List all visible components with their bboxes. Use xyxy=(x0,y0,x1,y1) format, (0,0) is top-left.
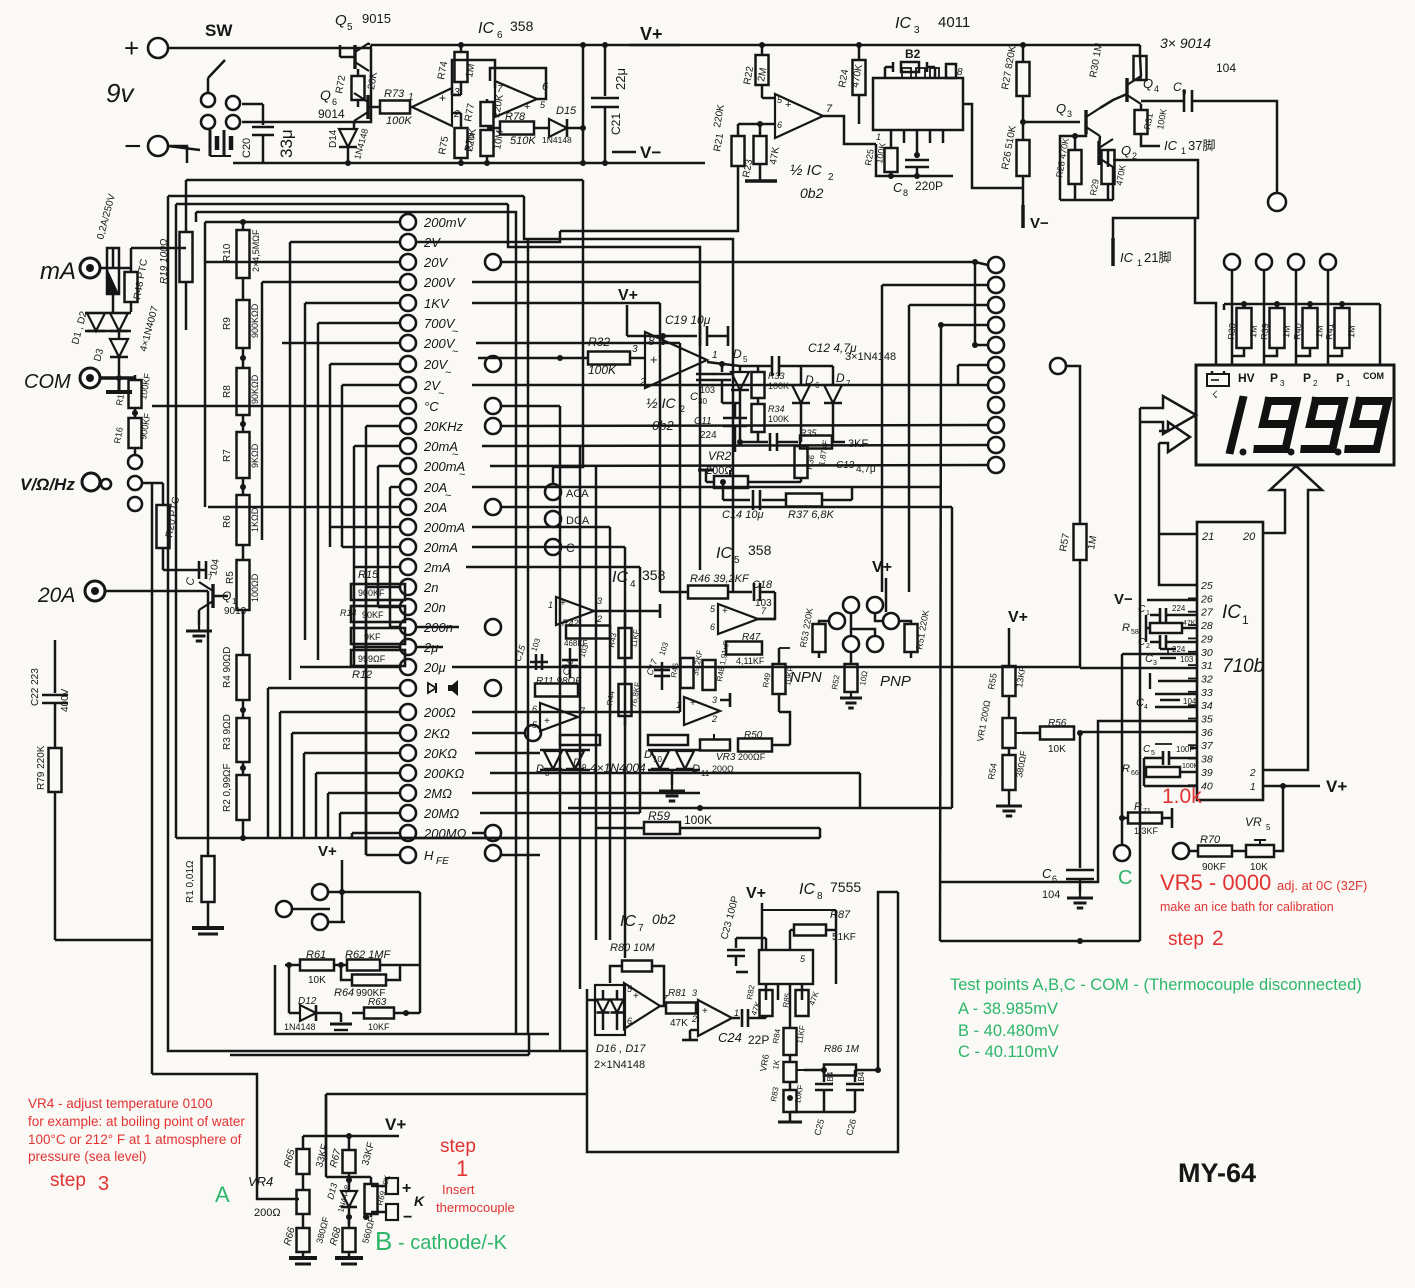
svg-text:C: C xyxy=(1138,604,1146,615)
wire C6 junction xyxy=(940,940,1140,943)
svg-text:V+: V+ xyxy=(872,559,892,576)
svg-text:+: + xyxy=(560,598,566,609)
svg-text:C24: C24 xyxy=(718,1030,742,1045)
pin32 stub xyxy=(1158,680,1197,683)
resistor R2 0.99ohmF xyxy=(237,775,250,820)
wire thermo lines xyxy=(560,1050,587,1053)
wire pin1 V+ xyxy=(1263,785,1320,788)
wire + to rail xyxy=(168,47,371,50)
resistor R57 1M xyxy=(1074,524,1087,560)
svg-text:100K: 100K xyxy=(768,381,789,391)
svg-text:VR5 - 0000: VR5 - 0000 xyxy=(1160,870,1271,895)
wire IC6b feedback xyxy=(490,68,546,99)
svg-text:IC: IC xyxy=(620,913,636,930)
svg-text:103: 103 xyxy=(700,385,715,395)
svg-text:10K: 10K xyxy=(308,975,326,986)
svg-text:5: 5 xyxy=(734,555,740,566)
svg-text:C: C xyxy=(690,391,698,403)
svg-text:1,3KF: 1,3KF xyxy=(1134,826,1159,836)
wire range rows left xyxy=(205,221,400,224)
svg-text:1B4: 1B4 xyxy=(857,1071,866,1086)
svg-text:~: ~ xyxy=(445,367,451,379)
svg-text:R33: R33 xyxy=(768,371,785,381)
svg-text:3: 3 xyxy=(1280,379,1285,388)
op-amp IC7b xyxy=(698,1000,732,1036)
resistor R30 1M xyxy=(1139,45,1142,56)
resistor R82 47K xyxy=(760,990,773,1016)
capacitor C14 10u xyxy=(723,499,750,502)
svg-text:R56: R56 xyxy=(1048,718,1067,729)
op-amp IC7a xyxy=(624,983,660,1029)
svg-text:200KΩ: 200KΩ xyxy=(423,766,464,781)
resistor R35 3KF xyxy=(800,436,832,449)
wire IC6a out to IC6b xyxy=(452,60,495,95)
resistor R55 13KF xyxy=(1003,666,1016,696)
svg-text:20MΩ: 20MΩ xyxy=(423,806,459,821)
svg-text:3: 3 xyxy=(1153,660,1157,667)
switch contact 200mA xyxy=(400,519,416,535)
svg-text:R32: R32 xyxy=(588,335,610,349)
resistor R25 100K xyxy=(890,143,893,148)
ground R83 xyxy=(778,1121,802,1124)
svg-text:22P: 22P xyxy=(748,1033,769,1047)
svg-text:1M: 1M xyxy=(1346,325,1357,338)
svg-text:adj. at 0C (32F): adj. at 0C (32F) xyxy=(1277,878,1367,893)
resistor R6 1KohmD xyxy=(237,495,250,545)
arrow display bottom up xyxy=(1263,466,1322,770)
resistor R71 1.3KF xyxy=(1119,815,1125,821)
svg-text:104: 104 xyxy=(1042,889,1060,901)
svg-text:3: 3 xyxy=(712,695,717,705)
svg-text:C: C xyxy=(1118,867,1132,889)
svg-text:100ΩD: 100ΩD xyxy=(250,573,260,602)
resistor R38 1M xyxy=(1231,270,1234,365)
svg-text:200mV: 200mV xyxy=(423,215,467,230)
transistor Q3 xyxy=(1084,110,1087,134)
potentiometer VR6 1K xyxy=(784,1062,797,1082)
switch contact 2V xyxy=(400,234,416,250)
svg-text:R11 98ΩF: R11 98ΩF xyxy=(536,676,582,687)
svg-text:VR3: VR3 xyxy=(716,752,736,763)
svg-text:Q: Q xyxy=(320,87,331,103)
svg-text:C22 223: C22 223 xyxy=(30,668,41,706)
resistor R64 990KF xyxy=(352,975,386,986)
svg-text:V+: V+ xyxy=(746,885,766,902)
svg-text:R78: R78 xyxy=(505,111,526,123)
svg-text:R41: R41 xyxy=(1324,323,1335,340)
svg-text:220P: 220P xyxy=(915,179,943,193)
svg-text:34: 34 xyxy=(1201,700,1213,712)
svg-text:5: 5 xyxy=(347,22,353,33)
svg-text:33μ: 33μ xyxy=(277,129,296,158)
resistor R13 9KF xyxy=(351,628,405,644)
svg-text:7: 7 xyxy=(638,923,644,934)
resistor R5 100ohmD xyxy=(237,560,250,610)
resistor R53 220K xyxy=(819,621,829,624)
wire long right lines xyxy=(819,828,822,838)
wire IC2b out xyxy=(707,362,740,366)
svg-text:R12: R12 xyxy=(352,669,372,681)
svg-text:35: 35 xyxy=(1201,714,1213,726)
V- pin26 xyxy=(1147,599,1197,602)
svg-text:V−: V− xyxy=(1114,591,1133,608)
wire 2V row to R21 xyxy=(416,231,560,242)
resistor R23 47K xyxy=(759,124,762,136)
switch contacts middle scattered xyxy=(485,254,501,270)
svg-text:R40: R40 xyxy=(1292,323,1303,340)
svg-text:2: 2 xyxy=(1146,643,1150,650)
wire Q4 collector xyxy=(1140,56,1141,76)
svg-text:200ΩF: 200ΩF xyxy=(738,752,766,762)
ground R1 xyxy=(207,902,210,926)
svg-text:8: 8 xyxy=(648,334,655,348)
wire IC2a pin6 xyxy=(738,123,775,126)
transistor Q2 xyxy=(1097,141,1100,165)
terminal sockets hfe area xyxy=(312,884,328,900)
svg-text:R39: R39 xyxy=(1259,323,1270,340)
svg-text:2: 2 xyxy=(596,614,602,624)
wire C1 C2 left join xyxy=(1145,615,1148,642)
svg-text:~: ~ xyxy=(459,469,465,481)
svg-text:3: 3 xyxy=(692,988,697,998)
svg-text:2: 2 xyxy=(1313,379,1318,388)
svg-text:+: + xyxy=(650,352,658,367)
svg-text:COM: COM xyxy=(1363,371,1384,381)
svg-text:R9: R9 xyxy=(222,317,233,330)
wire thermo bottom xyxy=(302,1224,305,1228)
svg-text:Q: Q xyxy=(1056,101,1066,116)
svg-text:Test points A,B,C - COM - (T: Test points A,B,C - COM - (Thermocouple … xyxy=(950,976,1362,994)
svg-text:C21: C21 xyxy=(609,113,623,135)
svg-text:3: 3 xyxy=(98,1173,109,1195)
op-amp IC2b xyxy=(645,332,707,388)
IC3 pins bottom xyxy=(890,130,893,143)
resistor R8 90KohmD xyxy=(237,368,250,415)
svg-text:+: + xyxy=(439,91,446,105)
wire matrix verticals xyxy=(204,222,207,507)
svg-text:200Ω: 200Ω xyxy=(423,705,456,720)
ground IC7b xyxy=(690,1029,698,1032)
svg-text:400V: 400V xyxy=(60,688,71,712)
svg-text:−: − xyxy=(124,130,142,163)
capacitor C26 184 xyxy=(854,1070,857,1082)
svg-text:7: 7 xyxy=(846,379,851,388)
svg-text:33: 33 xyxy=(1201,687,1213,699)
svg-text:+: + xyxy=(690,698,696,709)
svg-text:27: 27 xyxy=(1200,607,1214,619)
potentiometer VR3 200ohm xyxy=(700,740,730,751)
svg-text:9: 9 xyxy=(1182,88,1187,97)
wire vertical to V- xyxy=(582,45,585,163)
svg-text:37: 37 xyxy=(1201,740,1214,752)
resistor R66 380ohmF xyxy=(297,1228,310,1252)
switch contact 20MΩ xyxy=(400,805,416,821)
svg-text:C19 10μ: C19 10μ xyxy=(665,313,711,327)
resistor R48b 1.91KF xyxy=(703,660,716,690)
svg-text:step: step xyxy=(1168,929,1204,950)
svg-text:R70: R70 xyxy=(1200,834,1221,846)
svg-text:P: P xyxy=(1303,371,1311,385)
svg-text:3: 3 xyxy=(914,25,920,36)
svg-text:4,11KF: 4,11KF xyxy=(736,656,765,666)
svg-text:47K: 47K xyxy=(1183,620,1196,627)
wire R86 right xyxy=(856,892,898,1070)
resistor R48 PTC xyxy=(130,268,133,272)
svg-text:3: 3 xyxy=(597,596,602,606)
wire second column connections xyxy=(975,262,988,265)
svg-text:2: 2 xyxy=(691,1014,697,1024)
svg-text:2n: 2n xyxy=(423,580,438,595)
svg-text:+: + xyxy=(402,1180,411,1197)
svg-text:5: 5 xyxy=(1151,750,1155,757)
resistor R63 10KF xyxy=(364,1008,394,1019)
svg-text:358: 358 xyxy=(642,567,666,583)
wire bus left verticals xyxy=(168,196,560,1051)
svg-text:6: 6 xyxy=(532,704,537,714)
svg-text:1: 1 xyxy=(1242,613,1249,627)
svg-text:VR4 - adjust temperature 0100: VR4 - adjust temperature 0100 xyxy=(28,1096,213,1111)
resistor R45 39.2KF xyxy=(681,658,694,688)
wire Q2 bottom net xyxy=(1074,184,1077,200)
resistor R16 900KF xyxy=(134,408,137,418)
svg-text:104: 104 xyxy=(1183,697,1197,706)
ground R52 xyxy=(850,692,852,698)
svg-text:6: 6 xyxy=(777,120,782,130)
svg-text:R50: R50 xyxy=(744,730,763,741)
resistor R17 100KF xyxy=(134,375,137,380)
svg-text:V−: V− xyxy=(640,143,661,162)
arrow second stem xyxy=(1159,443,1197,534)
svg-text:1: 1 xyxy=(1250,782,1256,793)
svg-text:½ IC: ½ IC xyxy=(646,395,676,411)
svg-text:4,7μ: 4,7μ xyxy=(856,464,876,475)
svg-text:10K: 10K xyxy=(1048,744,1066,755)
resistor R3 9ohmD xyxy=(237,718,250,762)
wire rows right long xyxy=(502,261,975,264)
svg-text:358: 358 xyxy=(510,18,534,34)
switch contact 200mA~ xyxy=(400,458,416,474)
svg-text:100K: 100K xyxy=(386,115,412,127)
resistor R36 1.87KF xyxy=(795,446,808,478)
svg-text:1B4: 1B4 xyxy=(826,1071,835,1086)
battery cell symbol xyxy=(209,130,212,156)
svg-text:30: 30 xyxy=(698,397,707,406)
op-amp IC2a xyxy=(775,94,823,138)
resistor R34 100K xyxy=(752,404,765,432)
resistor R14 90KF xyxy=(351,606,405,622)
svg-text:Q: Q xyxy=(335,12,347,29)
svg-text:V+: V+ xyxy=(618,287,638,304)
svg-text:6: 6 xyxy=(710,622,715,632)
arrow display left xyxy=(1140,396,1196,434)
resistor R67 33KF xyxy=(348,1136,351,1150)
capacitor C10 C11 xyxy=(721,364,724,372)
resistor R49 10KF xyxy=(773,664,786,694)
capacitor C7 104 xyxy=(163,569,206,572)
svg-text:2: 2 xyxy=(711,714,717,724)
diode D15 1N4148 xyxy=(534,127,548,130)
resistor R42 468KF xyxy=(566,626,610,639)
transistor Q4 xyxy=(1125,78,1128,102)
wire bottom collector xyxy=(243,837,520,840)
svg-text:H: H xyxy=(424,848,434,863)
capacitor C20 33u xyxy=(262,104,265,125)
svg-text:1: 1 xyxy=(734,1008,739,1018)
wire pin35 xyxy=(940,721,1197,882)
wire IC2a out xyxy=(823,116,876,144)
svg-text:V+: V+ xyxy=(1008,609,1028,626)
svg-text:C: C xyxy=(1173,80,1182,94)
svg-text:32: 32 xyxy=(1201,673,1213,685)
svg-text:+: + xyxy=(124,33,139,63)
svg-text:R8: R8 xyxy=(222,385,233,398)
svg-text:+: + xyxy=(544,716,550,727)
IC1 21 pin label xyxy=(1111,238,1115,266)
svg-text:A - 38.985mV: A - 38.985mV xyxy=(958,1000,1058,1018)
switch contact 2n xyxy=(400,579,416,595)
svg-text:+: + xyxy=(785,99,791,111)
ground Q1 xyxy=(198,610,201,625)
svg-text:900KΩD: 900KΩD xyxy=(250,303,260,338)
svg-text:1: 1 xyxy=(712,350,718,361)
svg-text:40: 40 xyxy=(1201,780,1213,792)
resistor R72 20K xyxy=(357,69,360,76)
ground D10 xyxy=(671,770,674,785)
svg-text:R37 6,8K: R37 6,8K xyxy=(788,509,835,521)
switch contact 2MΩ xyxy=(400,785,416,801)
svg-text:FE: FE xyxy=(436,856,449,867)
svg-text:~: ~ xyxy=(438,388,444,400)
switch contact 20V~ xyxy=(400,356,416,372)
wire Q3 emitter join xyxy=(1075,130,1086,136)
wire hfe block frame xyxy=(275,965,549,1034)
wire mid horizontals xyxy=(568,807,952,810)
ground IC5b xyxy=(720,699,730,702)
switch contact 20A~ xyxy=(400,479,416,495)
resistor R77 220K xyxy=(486,99,489,102)
wire display top net xyxy=(1224,303,1380,306)
svg-text:1KV: 1KV xyxy=(424,296,450,311)
svg-text:R2 0,99ΩF: R2 0,99ΩF xyxy=(222,763,233,812)
IC IC1 710b block xyxy=(1197,522,1263,800)
svg-text:9KΩD: 9KΩD xyxy=(250,443,260,468)
svg-text:Insert: Insert xyxy=(442,1182,475,1197)
capacitor C24 22P xyxy=(732,1017,740,1020)
svg-text:2×1N4148: 2×1N4148 xyxy=(594,1059,645,1071)
svg-text:D: D xyxy=(836,371,845,385)
wire top block bottom rail xyxy=(233,162,705,165)
svg-text:71: 71 xyxy=(1143,808,1151,815)
svg-text:PNP: PNP xyxy=(880,673,911,690)
svg-text:100K: 100K xyxy=(1182,763,1199,770)
svg-text:R73: R73 xyxy=(384,88,405,100)
ground COM xyxy=(118,378,121,392)
svg-text:20: 20 xyxy=(1242,531,1256,543)
svg-text:0b2: 0b2 xyxy=(652,911,676,927)
svg-text:R: R xyxy=(1134,801,1142,813)
svg-text:103: 103 xyxy=(1180,655,1194,664)
wire to R57 terminal xyxy=(1050,358,1066,374)
svg-text:200Ω: 200Ω xyxy=(712,764,734,774)
resistor R9 900KohmD xyxy=(237,300,250,348)
wire switch drop xyxy=(242,48,371,122)
ground R23 xyxy=(745,179,777,182)
svg-text:D16 , D17: D16 , D17 xyxy=(596,1043,646,1055)
svg-text:358: 358 xyxy=(748,542,772,558)
svg-text:R: R xyxy=(1122,622,1130,634)
switch contact 20A xyxy=(400,499,416,515)
svg-text:20mA: 20mA xyxy=(423,540,458,555)
svg-text:1: 1 xyxy=(1346,379,1351,388)
svg-text:4×1N4004: 4×1N4004 xyxy=(590,761,646,775)
switch contact 20n xyxy=(400,599,416,615)
svg-text:11: 11 xyxy=(701,769,710,778)
svg-text:IC: IC xyxy=(1164,138,1178,153)
svg-text:700V: 700V xyxy=(424,316,456,331)
switch contact 20μ xyxy=(400,659,416,675)
wire pin30 down xyxy=(1121,654,1124,845)
resistor R22 2M xyxy=(759,42,765,48)
switch contact 2mA xyxy=(400,559,416,575)
svg-text:2: 2 xyxy=(1212,927,1224,950)
svg-text:ACA: ACA xyxy=(566,488,589,500)
svg-text:3: 3 xyxy=(1067,109,1072,119)
svg-text:3: 3 xyxy=(454,87,460,98)
small resistors row xyxy=(560,735,600,745)
switch contacts second column xyxy=(988,257,1004,273)
svg-text:R10: R10 xyxy=(222,243,233,262)
switch contact 2V~ xyxy=(400,377,416,393)
svg-text:9015: 9015 xyxy=(362,11,391,26)
switch contact 2KΩ xyxy=(400,725,416,741)
svg-text:7555: 7555 xyxy=(830,879,861,895)
resistor R40 1M xyxy=(1295,270,1298,365)
ground VR2 xyxy=(705,470,708,482)
svg-text:A: A xyxy=(215,1182,230,1207)
svg-text:COM: COM xyxy=(24,371,71,393)
svg-text:4: 4 xyxy=(630,579,636,590)
svg-text:999ΩF: 999ΩF xyxy=(358,654,386,664)
svg-text:39: 39 xyxy=(1201,767,1213,779)
op-amp IC6a xyxy=(412,88,452,126)
svg-text:V+: V+ xyxy=(318,843,337,860)
svg-text:R34: R34 xyxy=(768,404,785,414)
resistor R75 220K xyxy=(455,128,468,158)
svg-text:100K: 100K xyxy=(588,363,617,377)
resistor R65 33KF xyxy=(302,1136,305,1149)
op-amp IC4a xyxy=(556,597,594,625)
svg-text:2MΩ: 2MΩ xyxy=(423,786,452,801)
ground R54 xyxy=(1008,790,1011,800)
resistor R37 6.8K xyxy=(786,494,822,507)
svg-text:1.0k: 1.0k xyxy=(1162,785,1202,808)
wire IC8 top xyxy=(762,909,836,911)
svg-text:R15: R15 xyxy=(358,569,379,581)
resistor R69 10K xyxy=(326,1176,371,1179)
svg-text:1M: 1M xyxy=(1281,325,1292,338)
svg-text:1: 1 xyxy=(456,1156,468,1181)
ground D12 xyxy=(333,1012,341,1015)
resistor R87 51KF xyxy=(794,925,826,936)
svg-text:6: 6 xyxy=(332,97,337,107)
resistor R76 10M xyxy=(481,130,494,156)
wire long verticals to bottom xyxy=(559,406,562,1051)
resistor R50 200ohmF xyxy=(738,739,772,752)
svg-text:6: 6 xyxy=(627,1016,632,1026)
svg-text:for example: at boiling point: for example: at boiling point of water xyxy=(28,1114,245,1129)
svg-text:1N4148: 1N4148 xyxy=(284,1022,316,1032)
svg-text:IC: IC xyxy=(895,15,911,32)
